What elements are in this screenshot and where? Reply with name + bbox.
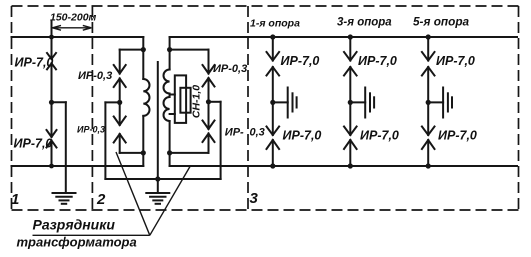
svg-text:трансформатора: трансформатора	[17, 235, 137, 250]
arrester IR-7,0 upper (section 1)	[15, 37, 57, 102]
svg-text:ИР-7,0: ИР-7,0	[438, 129, 477, 143]
node: secondary top lead junction	[167, 47, 172, 52]
wire: stub to left bypass	[105, 101, 119, 103]
wire: ground bottom horizontal	[105, 178, 220, 180]
wire: right bypass down	[220, 102, 222, 179]
svg-text:ИР-7,0: ИР-7,0	[358, 54, 397, 68]
svg-text:ИР-7,0: ИР-7,0	[14, 137, 53, 151]
wire: ground lead section 1	[65, 102, 67, 193]
node: section1 arrester midpoint	[49, 100, 54, 105]
svg-text:3-я опора: 3-я опора	[337, 17, 392, 29]
svg-text:3: 3	[250, 190, 259, 207]
transformer T secondary winding	[164, 70, 170, 122]
svg-text:1: 1	[11, 191, 19, 208]
pole 3 arresters	[422, 34, 477, 168]
svg-text:ИР-7,0: ИР-7,0	[15, 56, 54, 70]
svg-text:1-я опора: 1-я опора	[250, 18, 300, 30]
wire: stub bus to left gap line	[120, 49, 144, 51]
svg-text:Разрядники: Разрядники	[33, 217, 116, 233]
pole 2 arresters	[344, 34, 399, 168]
node: primary top lead junction	[141, 47, 146, 52]
arrester IR-0,3 upper left	[78, 50, 126, 103]
wire: secondary lower lead	[169, 121, 171, 166]
node: pole/bus junctions section 1	[49, 35, 54, 40]
wire: left bypass down	[104, 102, 106, 179]
fuse CN-1,0	[170, 75, 203, 123]
outer dashed border	[12, 6, 519, 210]
node: right gaps midpoint	[206, 99, 211, 104]
transformer T primary winding	[143, 79, 149, 116]
wire: stub to right bypass	[209, 101, 221, 103]
wire: LV top bus	[170, 36, 517, 38]
wire: right gap bottom stub	[170, 152, 209, 154]
ground (section 2)	[146, 193, 169, 204]
svg-text:ИР-7,0: ИР-7,0	[436, 54, 475, 68]
wire: primary feed corner	[142, 37, 144, 79]
svg-text:ИР-: ИР-	[225, 127, 244, 139]
node: section1 line to bottom bus	[49, 164, 54, 169]
wire: left gap bottom stub	[120, 152, 144, 154]
wire: LV bottom bus	[170, 165, 517, 167]
node: left gaps midpoint	[117, 100, 122, 105]
pole 1 arresters	[267, 34, 322, 168]
arrester IR-0,3 upper right	[203, 50, 248, 102]
svg-text:ИР-0,3: ИР-0,3	[78, 70, 112, 82]
wire: stub to ground lead	[52, 101, 66, 103]
wire: stub bus to right gap line	[170, 49, 209, 51]
svg-text:0,3: 0,3	[250, 127, 265, 139]
wire: primary lower lead	[142, 116, 144, 166]
dimension 150-200m	[50, 12, 97, 38]
callout: transformer arresters	[17, 152, 191, 250]
node: secondary bottom lead junction	[167, 150, 172, 155]
arrester IR-0,3 lower left	[77, 102, 126, 152]
transformer core / tank ground lead	[157, 62, 159, 193]
wire: HV top bus	[12, 36, 144, 38]
arrester IR-0,3 lower right	[203, 102, 265, 153]
node: ground lead junction	[155, 176, 160, 181]
ground (section 1)	[53, 193, 76, 204]
svg-text:ИР-7,0: ИР-7,0	[281, 54, 320, 68]
svg-text:ИР-0,3: ИР-0,3	[213, 63, 247, 75]
dashed divider section2/3	[247, 6, 249, 210]
svg-text:СН-1,0: СН-1,0	[191, 85, 203, 118]
svg-text:5-я опора: 5-я опора	[413, 15, 470, 29]
svg-text:2: 2	[96, 191, 106, 208]
wire: HV bottom bus	[12, 165, 144, 167]
svg-text:ИР-7,0: ИР-7,0	[283, 129, 322, 143]
svg-text:ИР-0,3: ИР-0,3	[77, 125, 105, 135]
arrester IR-7,0 lower (section 1)	[14, 102, 57, 166]
dashed divider section1/2	[91, 6, 93, 210]
wire: secondary top lead	[169, 37, 171, 70]
node: primary bottom lead junction	[141, 150, 146, 155]
svg-text:ИР-7,0: ИР-7,0	[360, 129, 399, 143]
svg-text:150-200м: 150-200м	[50, 12, 97, 24]
